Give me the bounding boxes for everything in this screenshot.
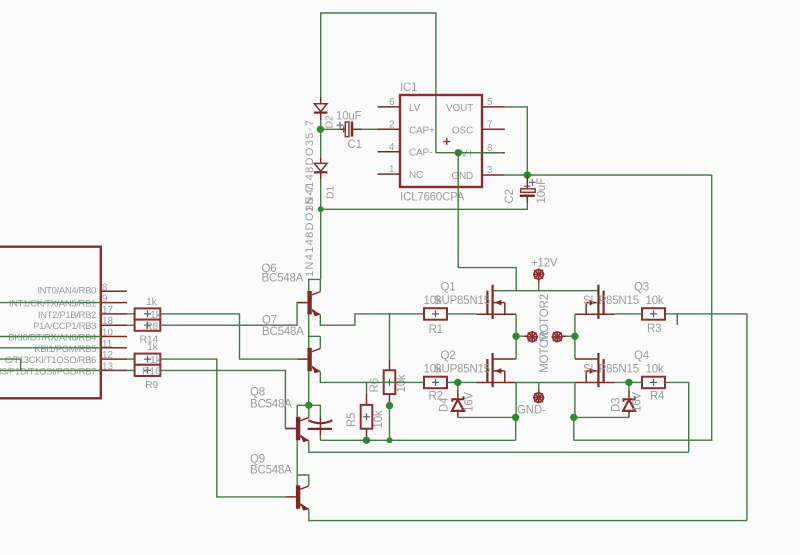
svg-text:10k: 10k	[646, 295, 664, 307]
svg-text:BKI0/DT/RX/AN6/RB4: BKI0/DT/RX/AN6/RB4	[8, 333, 96, 344]
MCU pin 11 stub	[101, 347, 127, 349]
MCU pin 8 stub	[101, 290, 127, 292]
wire Q4 gate to R4	[615, 381, 642, 383]
svg-text:R1: R1	[429, 324, 443, 336]
svg-text:10uF: 10uF	[336, 111, 362, 123]
transistor Q8 BC548A	[286, 405, 309, 442]
svg-text:Q7: Q7	[262, 315, 277, 327]
resistor R3 10k	[642, 308, 665, 320]
resistor R4 10k	[642, 377, 665, 389]
wire R8 out, jog down to Q7 base row	[160, 314, 297, 359]
wire V+ junction to pin 8 stub	[458, 152, 503, 154]
junction gnd left	[512, 414, 519, 421]
MCU pin 18 stub	[101, 324, 127, 326]
svg-text:C/T13CKI/T1OSO/RB6: C/T13CKI/T1OSO/RB6	[5, 355, 96, 366]
svg-text:16V: 16V	[463, 392, 475, 412]
GND- supply pad	[533, 383, 545, 404]
wire VOUT pin5 down to C2	[505, 107, 528, 175]
MOSFET Q3 SUP85N15 (mirrored)	[575, 285, 615, 337]
svg-text:BC548A: BC548A	[262, 272, 304, 284]
svg-text:D3: D3	[611, 398, 623, 412]
wire Q6 emitter jog to R1 row	[320, 314, 424, 325]
wire pin12 to R16	[127, 358, 135, 360]
wire pin13 to R9	[127, 369, 135, 371]
svg-text:1: 1	[389, 164, 394, 175]
resistor R5 10k (vertical)	[366, 382, 368, 394]
wire GND column right side down	[574, 175, 712, 440]
wire pin17 to R8	[127, 313, 135, 315]
wire top loop from diode column to IC V+ column	[321, 13, 459, 153]
svg-text:CAP+: CAP+	[409, 125, 435, 136]
svg-text:OSC: OSC	[452, 125, 473, 136]
resistor R1 10k	[424, 308, 447, 320]
svg-text:IC1: IC1	[400, 82, 417, 94]
wire pin18 to R14	[127, 324, 135, 326]
transistor Q9 BC548A	[286, 475, 309, 511]
junction R6 bottom	[386, 402, 393, 409]
svg-text:R16: R16	[142, 366, 161, 378]
svg-text:+12V: +12V	[531, 258, 558, 270]
svg-text:16V: 16V	[631, 392, 643, 412]
svg-text:7: 7	[487, 119, 492, 130]
svg-text:11: 11	[102, 339, 112, 350]
svg-text:R5: R5	[346, 413, 358, 427]
svg-text:Q2: Q2	[441, 350, 456, 362]
pin 5 VOUT stub	[482, 106, 505, 108]
junction C2-return tap on diode column	[318, 206, 324, 212]
svg-text:V+: V+	[461, 149, 473, 160]
svg-text:C1: C1	[348, 139, 362, 151]
junction C1 tap	[317, 126, 324, 133]
svg-text:9: 9	[102, 294, 107, 305]
svg-text:Q1: Q1	[441, 282, 456, 294]
MOSFET Q1 SUP85N15	[476, 285, 516, 337]
wire gnd rail between Q2 and Q4	[516, 382, 575, 384]
wire Q8 base-bottom to Q9 hook	[296, 440, 298, 485]
svg-text:CAP-: CAP-	[409, 148, 432, 159]
motor pad MOTOR (left)	[516, 331, 538, 343]
wire diode column D2 to D1	[320, 120, 322, 158]
pin 6 LV stub	[378, 106, 401, 108]
wire gnd run left segment	[320, 439, 515, 441]
wire Q6 base-bottom to Q7 collector hook	[308, 314, 310, 336]
IC1 pin names	[409, 103, 473, 182]
diode D2 1N4148DO35-7	[314, 97, 328, 120]
svg-text:10k: 10k	[373, 410, 385, 428]
MCU pin numbers	[102, 282, 113, 372]
capacitor at Q8 collector (top curved plate)	[309, 405, 321, 417]
svg-text:R6: R6	[369, 378, 381, 392]
svg-text:17: 17	[102, 305, 113, 316]
wire gnd right junction to D3	[574, 416, 629, 418]
wire R4 right, down to Q8 emitter run	[665, 382, 689, 452]
wire diode column D1 down to Q6 collector hook	[320, 179, 322, 279]
pin 7 OSC stub	[482, 128, 505, 130]
svg-text:I3/P1D/T1OSI/PGD/RB7: I3/P1D/T1OSI/PGD/RB7	[0, 366, 96, 377]
transistor Q6 BC548A	[298, 279, 321, 316]
junction R6 at gnd wire	[387, 437, 393, 443]
wire GND pin3 to right column	[505, 174, 712, 176]
svg-text:GND-: GND-	[517, 405, 546, 417]
zener diode D3 16V	[623, 382, 635, 417]
svg-text:1k: 1k	[146, 296, 158, 308]
R9 origin cross	[144, 367, 151, 374]
IC1 pin numbers	[389, 97, 493, 176]
svg-text:R8: R8	[145, 321, 158, 333]
MCU pin 9 stub	[101, 302, 127, 304]
wire R2 to Q2 gate	[447, 381, 476, 383]
svg-text:R4: R4	[650, 391, 665, 403]
svg-text:MOTOR: MOTOR	[539, 331, 551, 373]
pin 2 CAP+ stub	[378, 128, 401, 130]
svg-text:ICL7660CPA: ICL7660CPA	[400, 192, 465, 204]
svg-text:1N4148DO35-7: 1N4148DO35-7	[304, 184, 316, 277]
wire R16 out, long drop to Q9 base	[160, 359, 285, 497]
microcontroller U? (cropped at left edge)	[0, 247, 101, 399]
svg-text:INT1/CK/TX/AN5/RB1: INT1/CK/TX/AN5/RB1	[9, 299, 96, 310]
resistor R14 1k (row 18)	[135, 320, 161, 331]
svg-text:INT0/AN4/RB0: INT0/AN4/RB0	[37, 285, 96, 296]
svg-text:1k: 1k	[150, 309, 162, 321]
C2 polarity plus	[529, 179, 536, 186]
svg-text:KBI1/PGM/RB5: KBI1/PGM/RB5	[34, 344, 96, 355]
wire Q9 emitter down and long run right	[309, 509, 747, 520]
transistor Q7 BC548A	[298, 336, 321, 373]
R6 origin cross	[386, 379, 393, 386]
dangling stub on R3 wire	[676, 314, 678, 325]
svg-text:D2: D2	[323, 115, 335, 128]
svg-text:NC: NC	[409, 170, 423, 181]
svg-text:1k: 1k	[147, 341, 159, 353]
svg-text:INT2/P1B/RB2: INT2/P1B/RB2	[38, 310, 96, 321]
pin 1 NC stub	[378, 173, 401, 175]
resistor R6 10k (vertical)	[389, 314, 391, 360]
svg-text:2: 2	[389, 119, 394, 130]
wire Q7 base-bottom down to Q8 collector junction	[308, 371, 310, 405]
C1 polarity plus	[337, 122, 344, 129]
wire D4 bottom to gnd junction	[458, 416, 516, 418]
wire net RB1 (row 9, crosses MCU symbol)	[0, 302, 101, 304]
wire Q3 gate to R3	[615, 313, 642, 315]
wire R1 to Q1 gate	[447, 313, 476, 315]
junction D4 top	[454, 379, 461, 386]
svg-text:Q3: Q3	[634, 282, 649, 294]
svg-text:Q4: Q4	[634, 350, 650, 362]
svg-text:LV: LV	[409, 103, 421, 114]
MCU pin 10 stub	[101, 336, 127, 338]
motor pad MOTOR2 (right)	[552, 331, 575, 343]
junction C2 top	[524, 171, 531, 178]
capacitor C2 10uF	[520, 175, 535, 203]
R8 origin cross	[144, 310, 151, 317]
svg-text:12: 12	[102, 350, 113, 361]
junction gnd right	[570, 414, 577, 421]
svg-text:4: 4	[389, 142, 395, 153]
wire R3 right, down to Q9 emitter run	[665, 314, 747, 521]
junction R5 bottom	[363, 437, 370, 444]
svg-text:3: 3	[487, 165, 493, 176]
svg-text:GND: GND	[451, 171, 473, 182]
wire R9 out, drop to Q8 base	[160, 370, 296, 428]
resistor R9 1k (row 13)	[135, 365, 161, 376]
svg-text:6: 6	[389, 97, 395, 108]
wire joining row 12 to row 13	[20, 359, 22, 370]
svg-text:R9: R9	[145, 379, 158, 391]
IC1 ICL7660CPA	[378, 95, 505, 187]
+12V supply pad	[533, 269, 545, 291]
svg-text:8: 8	[102, 282, 108, 293]
svg-text:P1A/CCP1/RB3: P1A/CCP1/RB3	[33, 321, 96, 332]
junction V+ pin	[455, 149, 462, 156]
svg-text:1k: 1k	[150, 354, 162, 366]
R5 origin cross	[363, 413, 370, 420]
svg-text:C2: C2	[504, 189, 516, 203]
resistor R2 10k	[424, 377, 447, 389]
R14 origin cross	[144, 322, 151, 329]
MOSFET Q4 SUP85N15 (mirrored)	[575, 336, 615, 417]
svg-text:10uF: 10uF	[536, 178, 548, 204]
R16 origin cross	[144, 356, 151, 363]
IC1 origin cross	[443, 138, 450, 145]
wire gnd left junction down to gnd run	[515, 417, 517, 440]
wire C2 bottom return to diode column	[321, 203, 528, 209]
zener diode D4 16V	[452, 382, 464, 417]
svg-text:SUP85N15: SUP85N15	[583, 364, 639, 376]
svg-text:SUP85N15: SUP85N15	[434, 295, 490, 307]
svg-text:BC548A: BC548A	[250, 465, 292, 477]
svg-text:SUP85N15: SUP85N15	[583, 295, 639, 307]
svg-text:D4: D4	[439, 397, 451, 412]
capacitor C1 10uF	[320, 122, 377, 137]
svg-text:10k: 10k	[396, 374, 408, 392]
MCU pin 17 stub	[101, 313, 127, 315]
wire R14 out, jog up to Q6 base row	[160, 303, 307, 326]
svg-text:R3: R3	[647, 323, 661, 335]
wire net RB7 (row 13, crosses MCU symbol)	[0, 369, 101, 371]
svg-text:10: 10	[102, 328, 113, 339]
wire +12V top rail	[493, 290, 599, 292]
junction Q8 collector node	[305, 402, 312, 409]
svg-text:5: 5	[487, 97, 493, 108]
junction motor left	[512, 333, 519, 340]
MCU pin 13 stub	[101, 369, 127, 371]
svg-text:D1: D1	[324, 186, 336, 199]
MCU pin labels	[0, 285, 96, 377]
pin 8 V+ stub	[482, 152, 505, 154]
wire net RB4 (row 10)	[0, 336, 101, 338]
svg-text:BC548A: BC548A	[262, 326, 304, 338]
MOSFET Q2 SUP85N15	[476, 336, 516, 417]
resistor R8 1k (row 17)	[135, 308, 161, 319]
svg-text:VOUT: VOUT	[446, 103, 473, 114]
svg-text:13: 13	[102, 361, 113, 372]
svg-text:18: 18	[102, 316, 113, 327]
wire Q7 emitter to Q2 gate row (crosses R6)	[320, 372, 424, 383]
svg-text:Q8: Q8	[250, 387, 265, 399]
junction D3 top	[625, 379, 632, 386]
wire net RB6 (row 12, from left edge)	[0, 358, 21, 360]
wire Q8 emitter down and long run right	[309, 441, 689, 453]
svg-text:10k: 10k	[646, 364, 664, 376]
svg-text:BC548A: BC548A	[250, 399, 292, 411]
resistor R16 1k (row 12)	[135, 354, 161, 365]
junction motor right	[571, 333, 578, 340]
svg-text:Q9: Q9	[250, 453, 265, 465]
pin 4 CAP- stub	[378, 151, 401, 153]
wire net RB5 (row 11)	[0, 347, 101, 349]
diode D1 1N4148DO35-7	[314, 158, 328, 179]
MCU pin 12 stub	[101, 358, 127, 360]
pin 3 GND stub	[482, 174, 505, 176]
svg-text:SUP85N15: SUP85N15	[434, 364, 490, 376]
wire V+ column down to H-bridge supply	[458, 153, 516, 291]
